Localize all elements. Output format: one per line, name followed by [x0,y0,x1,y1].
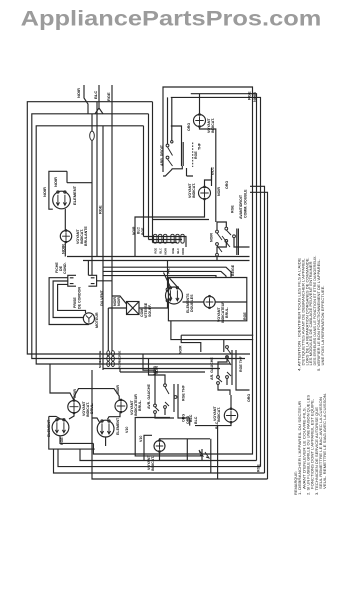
svg-text:RGE: RGE [247,91,252,100]
comm double bars [237,229,239,256]
svg-text:NOIR: NOIR [252,92,257,102]
switch contacts ARR DROIT [166,144,169,147]
wire elements doubles connections [164,273,247,303]
svg-text:INDICAT.: INDICAT. [151,456,155,471]
svg-text:NOIR: NOIR [76,88,81,98]
svg-text:BLC: BLC [118,356,122,362]
svg-text:RGE: RGE [171,248,175,254]
arrow ticks [199,450,209,458]
wires ar gauche [218,350,250,395]
extra ar gauche contacts [226,346,229,349]
plug fiche half A [68,275,76,286]
svg-text:ORG: ORG [225,181,229,189]
svg-text:RGE THF: RGE THF [182,384,186,401]
wire mid line 3 [103,276,216,278]
motor moteur du vent [83,313,94,324]
svg-text:NOIR: NOIR [210,233,214,242]
connector pill grid [107,351,110,356]
connector pill b3 [181,234,184,243]
wire lamp mid connections [135,168,212,257]
svg-text:DU VENT.: DU VENT. [100,289,104,306]
switch contacts [154,404,157,407]
element double circle [166,287,183,304]
wire element hook [49,171,67,209]
svg-text:BLC: BLC [194,416,198,424]
heater THF bars [174,384,178,412]
lamp voyant indicat bottom right [224,409,237,422]
svg-text:ORG: ORG [187,123,191,131]
svg-text:NOIR: NOIR [42,187,47,197]
wire cross vertical b [210,439,212,473]
wire bus L1 noir [27,102,250,354]
element E1 top-left circle [53,191,71,209]
svg-text:NOIR: NOIR [117,297,121,306]
wire cord loop 3 [58,284,86,313]
lamp voyant 2 [115,400,127,412]
svg-text:THF: THF [198,142,202,150]
wire cross vertical a [201,449,203,461]
wire drop D1 to connector [152,102,154,243]
svg-text:RGE: RGE [106,92,111,101]
svg-text:BRULANTE: BRULANTE [84,226,88,246]
lamp voyant indicat top right [194,115,206,127]
svg-text:COND.: COND. [63,262,67,274]
lamp voyant 1 [68,401,80,413]
svg-text:NOIR: NOIR [217,187,221,196]
element E3 circle [97,420,114,437]
svg-text:BLC: BLC [93,91,98,99]
svg-text:MOTEUR: MOTEUR [95,312,99,328]
svg-text:NOIR: NOIR [164,248,168,255]
wire cross vertical c [217,426,219,479]
svg-text:NOIR: NOIR [53,177,58,187]
svg-text:ORG: ORG [182,414,186,422]
wire drop D3 to connector [143,126,145,237]
switch comm double contacts [217,230,231,252]
svg-text:ORG: ORG [186,416,190,424]
wire outer box top [163,87,253,247]
lamp internals [226,411,236,421]
svg-text:PRISE: PRISE [73,297,77,308]
svg-text:RGE: RGE [141,227,145,235]
wire RGE supply [111,85,113,281]
wire bus L4 [103,368,220,370]
svg-text:RGE: RGE [194,151,198,159]
lamp voyant indicat bottom left [154,441,165,452]
svg-text:ELEMENT: ELEMENT [116,417,120,435]
svg-text:RGE: RGE [118,350,122,356]
element E2 circle [52,419,69,436]
lamp internals [206,298,214,306]
svg-text:RGE: RGE [98,350,102,356]
wire mid line 2 [103,271,226,277]
svg-text:RGE: RGE [98,205,103,214]
svg-text:NOIR: NOIR [155,365,159,374]
svg-text:DE CORDON: DE CORDON [78,287,82,309]
box elements doubles [168,278,246,321]
lamp voyant indicat brulante [60,231,71,242]
svg-text:ORG: ORG [247,394,251,402]
wire vitesse switch [139,261,168,309]
wire blc drop [144,435,152,460]
wire mid vertical A [91,114,93,131]
wire mid vertical A lower [91,140,93,269]
svg-text:NOIR: NOIR [181,248,185,255]
svg-text:RGE: RGE [231,205,235,213]
svg-text:BRUL.: BRUL. [138,400,142,411]
element E2 internals [55,422,65,433]
svg-text:RGE: RGE [243,312,247,320]
svg-text:BRUL.: BRUL. [225,307,229,318]
wire elements wiring left [49,413,95,449]
wire cord loop 2 [53,281,83,318]
svg-text:V10: V10 [125,427,129,433]
svg-text:ELEMENT: ELEMENT [72,185,77,205]
wire mid vertical B [96,102,98,257]
svg-text:DOUBLES: DOUBLES [190,294,194,312]
svg-text:AppliancePartsPros.com: AppliancePartsPros.com [21,7,322,30]
wire hexagon arch [50,364,119,401]
junction oval connector [90,131,95,140]
lamp internals [195,116,203,124]
heater THF bars [232,355,236,385]
wire voyant bl [160,439,211,461]
plug fiche half B [88,275,96,286]
wire cord loop 1 [49,278,89,325]
element double internals [169,290,179,301]
wire drops to pills [144,237,187,248]
wire inner box 3 [171,97,261,466]
lamp internals [156,442,163,449]
vitesse selector switch [166,288,169,291]
wire inner box top [191,94,257,461]
lamp internals [200,189,208,197]
wire comm double wiring [217,222,250,261]
svg-text:BLC: BLC [137,226,141,234]
element E3 internals [100,423,110,434]
switch contacts [217,376,220,379]
svg-text:AVANT/DROIT: AVANT/DROIT [239,194,243,219]
connector pill b2 [176,234,179,243]
svg-text:NOIR: NOIR [179,345,183,354]
wire right frame 4 [250,186,265,473]
wire bottom line 3 [58,449,261,467]
wire BLC supply [95,85,103,114]
svg-text:AR. GAUCHE: AR. GAUCHE [210,357,214,380]
wire drop D2 to connector [148,114,150,240]
lamp internals [117,402,125,410]
wire avr-to-bottom channel [135,418,202,456]
wires avr gauche [143,354,190,426]
wires ar gauche feed [171,321,253,352]
svg-text:VEUIL. REMETTRE LE SIAG AVEC L: VEUIL. REMETTRE LE SIAG AVEC LA CUISSON. [323,393,327,489]
lamp internals [70,402,79,411]
svg-text:BLC: BLC [176,248,180,253]
wire mid bus 2 [83,261,250,276]
wire lamp vertical [187,94,216,222]
wire plug B to RGE [92,269,112,281]
connector pill a2 [159,234,162,243]
fan speed box with X [127,302,140,315]
wire fan box connections [108,281,126,351]
wire bus L2 blc [32,114,245,359]
lamp voyant indicat mid [199,187,211,199]
svg-text:RGE THF: RGE THF [239,355,243,372]
connector pill a3 [164,234,167,243]
motor internals [86,315,92,322]
wire element to box [67,171,92,182]
wire voyant br [195,395,231,426]
wire bottom line 1 [93,247,252,454]
svg-text:RGE: RGE [154,248,158,254]
svg-text:COMM. DOUBLE: COMM. DOUBLE [244,189,248,218]
wire mid lines to right cluster [103,267,231,277]
wire element bottom to voyant [64,209,66,231]
connector pill b1 [171,234,174,243]
lamp internals [62,232,70,240]
svg-text:INDICAT.: INDICAT. [211,118,215,133]
wire elements wiring right [92,412,120,446]
wire lamp down [64,242,66,257]
svg-text:INDICAT.: INDICAT. [192,183,196,198]
svg-text:BEIGE: BEIGE [231,264,235,276]
wire blc vertical [211,176,213,186]
svg-text:SOUFF.: SOUFF. [148,304,152,317]
heater THF bars [182,142,184,166]
svg-text:RGE: RGE [257,464,261,472]
wire bottom line 4 [54,449,265,473]
connector pill a1 [154,234,157,243]
wire bus L5 [120,369,205,373]
wire bus L3 rge [36,126,230,364]
wire right frame 5 [250,192,268,479]
wire mid vertical C [102,126,104,370]
element E1 internals [56,195,66,206]
wire bottom line 5 [92,370,268,479]
svg-text:BLC: BLC [98,356,102,362]
wire mid bus 1 [67,256,250,258]
svg-text:AVR. GAUCHE: AVR. GAUCHE [147,384,151,409]
wire arr droit to box [163,97,182,176]
thermal dashed link [192,143,194,168]
wire NOIR supply [84,85,88,114]
svg-text:NOIR: NOIR [118,361,122,368]
svg-text:INDICAT.: INDICAT. [217,407,221,422]
lamp voyant indicateur brul [204,296,215,307]
svg-text:BLC: BLC [159,248,163,253]
svg-text:UNE FOIS LA REPARATION EFFECTU: UNE FOIS LA REPARATION EFFECTUEE. [321,285,325,365]
svg-text:V10: V10 [139,436,143,442]
wire bottom line 2 [80,449,257,460]
svg-text:NOIR: NOIR [98,361,102,368]
svg-text:NOIR: NOIR [132,226,136,235]
svg-text:ARR. DROIT: ARR. DROIT [160,144,164,166]
